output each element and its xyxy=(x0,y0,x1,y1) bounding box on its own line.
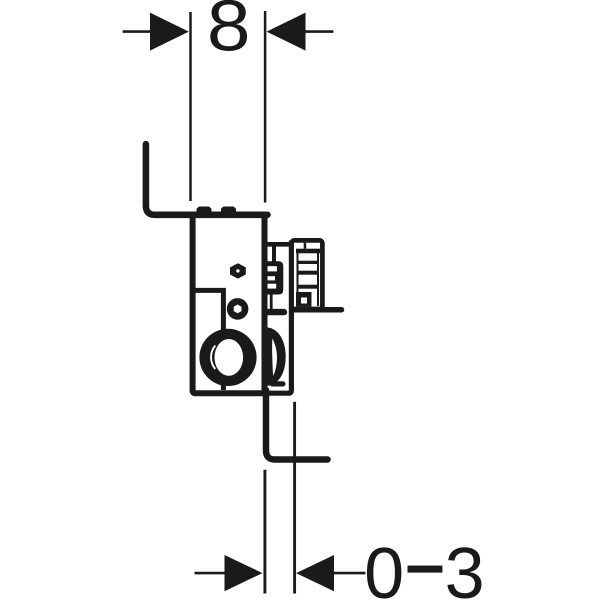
valve thread band 4 xyxy=(297,285,319,289)
arrowhead top-left xyxy=(150,13,189,51)
valve thread band 2 xyxy=(297,261,319,264)
svg-text:3: 3 xyxy=(445,534,485,600)
hex nut hole xyxy=(236,269,239,272)
supply connector stub xyxy=(272,246,276,262)
small bushing (donut) xyxy=(227,298,249,320)
arrowhead top-right xyxy=(267,13,306,51)
wall profile rail (L-shape) xyxy=(146,144,268,215)
flush bend foot xyxy=(273,381,283,386)
valve bottom notch xyxy=(301,298,307,304)
svg-text:0: 0 xyxy=(364,534,404,600)
clamp slit 3 xyxy=(268,284,277,289)
highlight arc inside ring xyxy=(211,346,215,370)
outlet bore (white) xyxy=(215,339,244,376)
extension line left (x=190) xyxy=(189,12,192,201)
flush bend leaf gap xyxy=(272,339,277,377)
svg-text:8: 8 xyxy=(207,0,251,66)
dimension line top-right segment xyxy=(304,30,334,33)
clamp block xyxy=(268,261,284,294)
valve inner sleeve right edge xyxy=(317,250,319,306)
arrowhead bottom-left xyxy=(225,555,263,591)
valve thread band 3 xyxy=(297,271,319,275)
flush bend body xyxy=(267,327,286,385)
bottom bracket (L-shape) xyxy=(266,390,328,460)
dimension text dash xyxy=(408,566,443,573)
dimension line top-left segment xyxy=(123,30,152,33)
clamp foot bar xyxy=(266,309,284,315)
big outlet ring xyxy=(199,329,256,386)
extension line bottom-right (x=294.6) xyxy=(293,402,296,594)
housing bottom plate extension to right xyxy=(265,241,292,394)
clamp slit 2 xyxy=(268,276,276,280)
clamp lower pin xyxy=(270,295,273,310)
valve fitting body xyxy=(291,240,322,309)
dimension line bottom-right segment xyxy=(332,572,366,575)
clamp slit 1 xyxy=(268,266,277,271)
arrowhead bottom-right xyxy=(296,555,334,591)
valve bottom block xyxy=(296,292,312,307)
valve outlet arm xyxy=(294,307,342,313)
bushing hex hole xyxy=(234,305,242,314)
mounting tab right xyxy=(221,207,236,213)
inner step partition xyxy=(195,290,223,390)
extension line bottom-left (x=265) xyxy=(263,470,266,594)
mounting tab left xyxy=(197,207,212,213)
extension line right (x=265) xyxy=(264,11,267,203)
main housing box xyxy=(193,215,265,393)
valve thread band 1 xyxy=(296,249,320,254)
valve top divider xyxy=(304,243,307,249)
dimension line bottom-left segment xyxy=(195,572,228,575)
hex nut xyxy=(230,263,246,278)
supply bracket arm xyxy=(264,242,291,247)
valve inner sleeve left edge xyxy=(297,250,299,306)
